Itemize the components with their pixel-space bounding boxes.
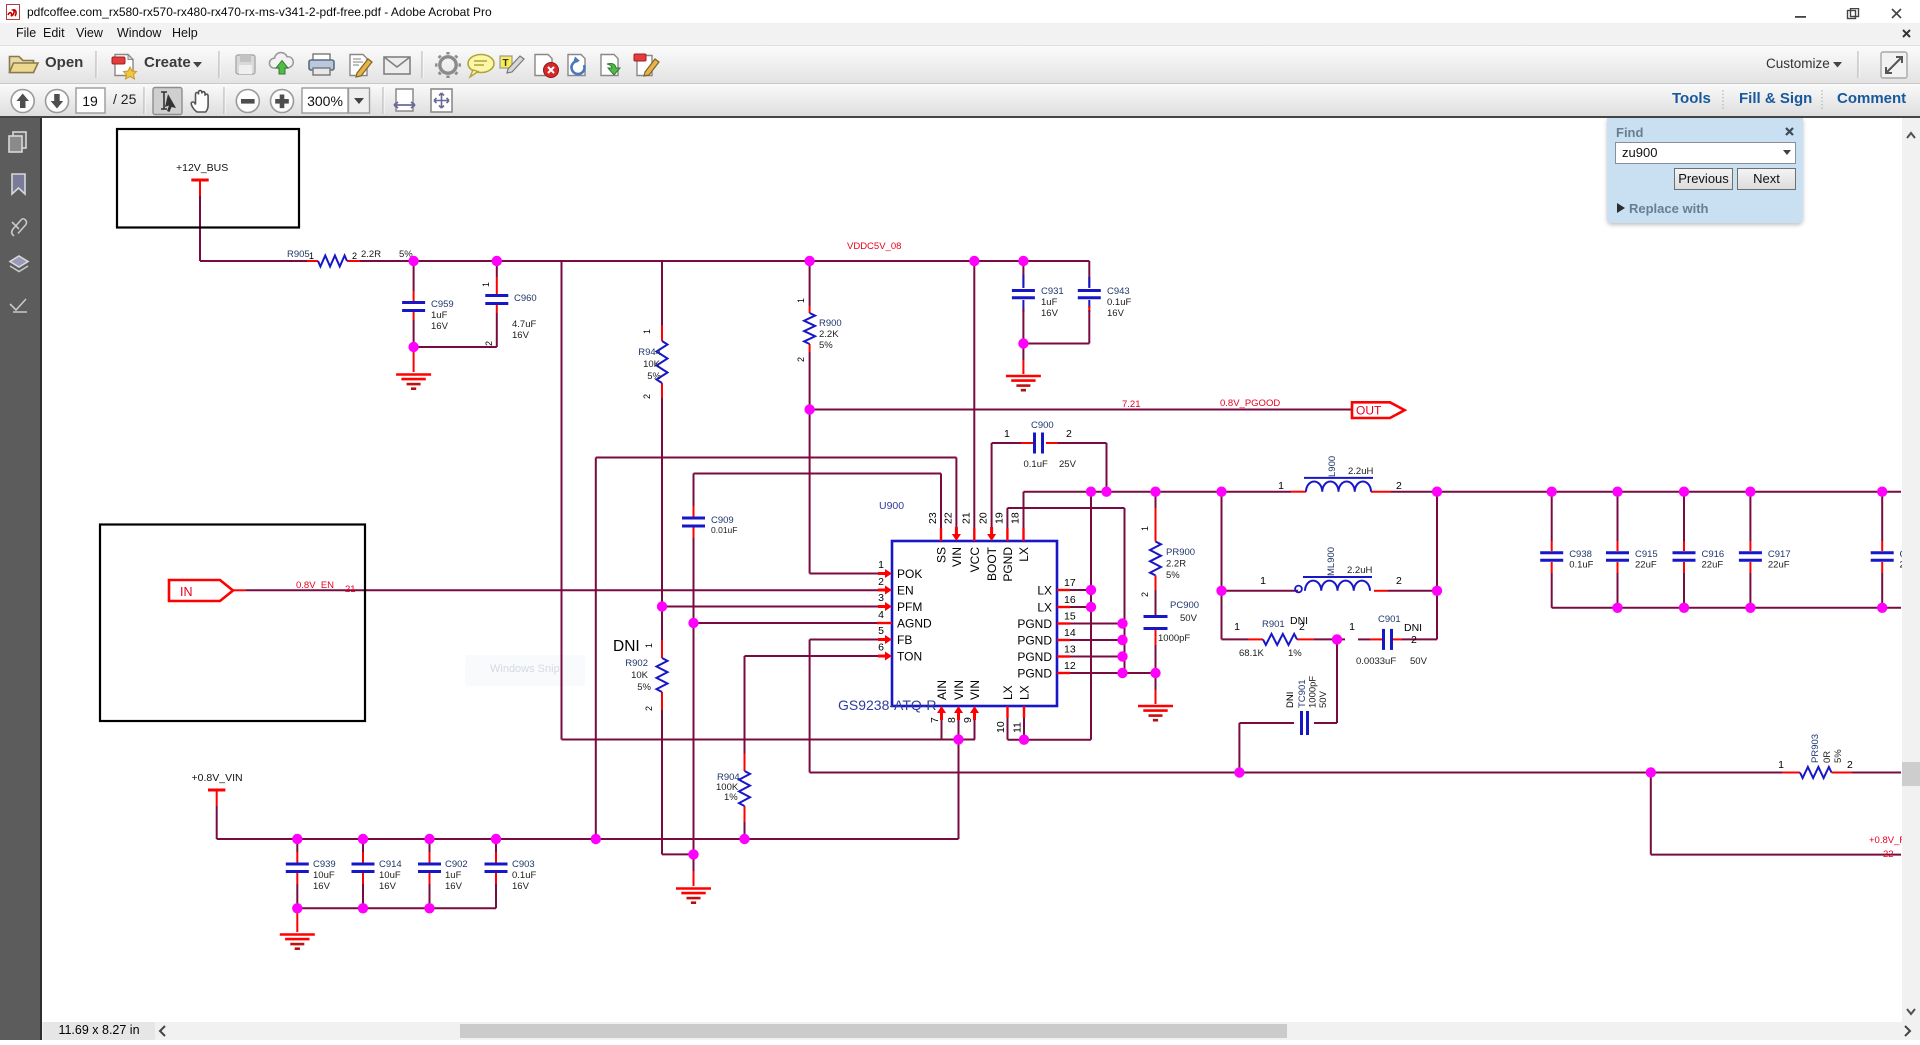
svg-text:R901: R901 [1262,619,1285,630]
wire SS line from C909 to pin23 [694,473,942,475]
vertical scrollbar [1902,118,1920,1022]
svg-text:2: 2 [642,394,652,399]
wire PGND pin14 lead [1070,639,1123,641]
svg-text:PGND: PGND [1017,634,1052,648]
U900 top pin 19 PGND [1006,528,1008,541]
svg-text:U900: U900 [879,500,904,512]
capacitor C914 [362,839,364,852]
junction ground column x694 [688,849,698,859]
capacitor C9xx at page edge [1881,492,1883,541]
junction top rail / C959 [408,256,418,266]
svg-text:DNI: DNI [1290,615,1308,627]
wire bottom right +0.8V feed y854.6 [1651,854,1901,856]
svg-text:2.2R: 2.2R [361,249,381,260]
junction PGND pin13 [1117,651,1127,661]
svg-text:4: 4 [878,609,884,621]
svg-text:1: 1 [796,298,806,303]
svg-text:C903: C903 [512,859,535,870]
wire POK link from R900 column [810,573,879,575]
svg-text:PGND: PGND [1017,617,1052,631]
svg-text:2: 2 [484,341,494,346]
svg-text:1: 1 [1004,428,1010,440]
svg-text:50V: 50V [1180,613,1198,624]
svg-text:1uF: 1uF [431,310,448,321]
svg-text:21: 21 [961,512,973,524]
capacitor C917 [1749,492,1751,541]
wire AGND line [694,622,878,624]
U900 top pin 21 VCC [973,528,975,541]
svg-text:0.1uF: 0.1uF [512,870,536,881]
svg-text:12: 12 [1064,660,1076,672]
svg-text:2.2K: 2.2K [819,329,839,340]
svg-text:16: 16 [1064,594,1076,606]
svg-text:10: 10 [995,721,1007,733]
U900 top pin 23 SS [940,528,942,541]
ground under C939 [296,908,298,932]
ground near C959 [413,347,415,372]
svg-text:0.1uF: 0.1uF [1569,560,1593,571]
wire LX pins 10-11 bottom link [1008,739,1092,741]
toolbar row 1 [0,46,1920,84]
svg-text:LX: LX [1001,685,1015,700]
wire vertical x595.8 VIN column [595,458,597,840]
resistor PR900 [1150,542,1161,576]
svg-text:VCC: VCC [968,547,982,573]
svg-text:TC901: TC901 [1297,679,1308,708]
wire TC901 line y723 [1239,722,1294,724]
svg-text:3: 3 [878,592,884,604]
svg-text:R944: R944 [638,347,661,358]
svg-text:L900: L900 [1327,456,1338,477]
capacitor C902 [429,839,431,852]
svg-text:1: 1 [1260,575,1266,587]
svg-text:C931: C931 [1041,286,1064,297]
U900 right pin 16 LX [1057,606,1070,608]
wire bottom caps ground link y908 [297,907,496,909]
wire y772.5 after PR903 to page edge [1852,772,1901,774]
capacitor C903 [495,839,497,852]
svg-text:16V: 16V [1107,308,1125,319]
wire R901 C901 line [1222,638,1249,640]
svg-text:LX: LX [1037,601,1052,615]
ground near C931 [1022,344,1024,361]
IC U900 body [892,541,1057,706]
junction caps bottom C915 [1612,603,1622,613]
svg-text:0.1uF: 0.1uF [1107,297,1131,308]
svg-text:1uF: 1uF [445,870,462,881]
wire long horizontal y772.5 FB net [810,772,1782,774]
svg-text:R900: R900 [819,318,842,329]
wire vertical R900 column top [809,261,811,306]
svg-text:10K: 10K [631,670,649,681]
port box IN [100,525,365,722]
junction rail / C902 [424,834,434,844]
svg-text:PGND: PGND [1017,667,1052,681]
junction y772.5 / output drop [1646,767,1656,777]
svg-text:7: 7 [929,717,941,723]
wire PGND pin13 lead [1070,656,1123,658]
svg-text:1: 1 [1278,480,1284,492]
junction rail / C903 [491,834,501,844]
svg-text:PR900: PR900 [1166,547,1195,558]
capacitor C960 [496,261,498,277]
wire horizontal y739.5 VIN bottom bus [562,739,976,741]
svg-text:0.0033uF: 0.0033uF [1356,656,1396,667]
junction LX pin17 [1086,585,1096,595]
svg-text:16V: 16V [1041,308,1059,319]
junction rail / C914 [358,834,368,844]
wire vertical R900 column PGOOD to POK [809,410,811,574]
svg-text:Windows Snip: Windows Snip [490,663,560,675]
svg-text:FB: FB [897,633,912,647]
wire R902 bottom to ground column [662,853,694,855]
svg-text:AIN: AIN [935,680,949,700]
U900 left pin 6 TON [878,652,892,661]
svg-text:15: 15 [1064,611,1076,623]
svg-text:10K: 10K [643,359,661,370]
svg-text:PC900: PC900 [1170,600,1199,611]
svg-text:C902: C902 [445,859,468,870]
U900 top pin 18 LX [1022,528,1024,541]
svg-text:1: 1 [642,329,652,334]
svg-text:ML900: ML900 [1326,547,1337,576]
svg-text:1000pF: 1000pF [1308,676,1319,708]
wire vertical x1239.4 TC901 branch [1238,723,1240,773]
svg-text:POK: POK [897,567,922,581]
junction gnd link C902 [424,903,434,913]
svg-text:0.01uF: 0.01uF [711,525,737,535]
wire EN red stub at IN port [233,589,246,591]
capacitor C938 [1551,492,1553,541]
resistor R904 [744,754,746,772]
svg-text:16V: 16V [431,321,449,332]
wire PGND pin19 top line y508 [1007,507,1124,509]
svg-text:OUT: OUT [1356,404,1382,418]
junction caps bottom C9xx [1877,603,1887,613]
svg-text:4.7uF: 4.7uF [512,319,536,330]
svg-text:50V: 50V [1410,656,1428,667]
svg-text:C915: C915 [1635,549,1658,560]
junction caps rail C915 [1612,487,1622,497]
junction PGND pin14 [1117,635,1127,645]
svg-text:6: 6 [878,642,884,654]
svg-text:1uF: 1uF [1041,297,1058,308]
svg-text:2: 2 [1411,634,1417,646]
svg-text:16V: 16V [512,881,530,892]
junction pin12 / PC900 ground [1150,668,1160,678]
U900 top pin 22 VIN [952,527,961,541]
svg-text:68.1K: 68.1K [1239,648,1264,659]
ground near PC900 [1138,705,1173,708]
title bar [0,0,1920,23]
U900 bottom pin 8 VIN [954,706,963,720]
wire vertical x744.5 TON-R904 column [744,656,746,754]
svg-text:22uF: 22uF [1768,560,1790,571]
junction top rail / C931 [1018,256,1028,266]
svg-text:11: 11 [1012,722,1024,733]
svg-text:2: 2 [796,357,806,362]
wire vertical x958.5 rail riser [958,740,960,840]
U900 right pin 15 PGND [1057,622,1070,624]
svg-text:5%: 5% [637,682,651,693]
wire main top rail y261 left of R905 [200,260,307,262]
junction gnd link C914 [358,903,368,913]
wire PGND pin12 line [1070,672,1156,674]
resistor R944 [661,325,663,341]
U900 right pin 14 PGND [1057,639,1070,641]
svg-text:22: 22 [1883,849,1894,860]
svg-text:19: 19 [82,93,98,109]
wire LX rail y491.7 left segment [1024,491,1292,493]
U900 top pin 20 BOOT [987,527,996,541]
svg-text:LX: LX [1017,547,1031,562]
svg-text:0.1uF: 0.1uF [1024,459,1048,470]
wire vertical VCC column x974.3 [973,261,975,528]
svg-text:BOOT: BOOT [985,546,999,581]
svg-text:1: 1 [1349,621,1355,633]
svg-text:22: 22 [943,512,955,524]
U900 left pin 3 PFM [878,602,892,611]
watermark snip remnant [465,655,585,686]
svg-text:PR903: PR903 [1810,734,1821,763]
U900 left pin 2 EN [878,586,892,595]
svg-text:2: 2 [352,251,357,261]
capacitor C939 [296,839,298,852]
svg-text:14: 14 [1064,627,1076,639]
svg-text:+12V_BUS: +12V_BUS [176,162,228,174]
junction PFM / R944 column [657,601,667,611]
svg-text:VIN: VIN [952,680,966,700]
svg-text:5%: 5% [647,371,661,382]
junction top rail / R900 [804,256,814,266]
junction caps rail C938 [1547,487,1557,497]
ground near x694 column [676,887,711,890]
svg-text:DNI: DNI [1285,692,1296,708]
svg-text:2: 2 [1066,428,1072,440]
svg-text:22uF: 22uF [1635,560,1657,571]
svg-text:23: 23 [927,512,939,524]
navigation sidebar [0,118,42,1040]
svg-text:22uF: 22uF [1702,560,1724,571]
svg-text:9: 9 [962,717,974,723]
menu bar [0,23,1920,46]
capacitor C959 [413,261,415,291]
wire VIN line from x596 to pin22 [596,457,957,459]
svg-text:1%: 1% [1288,648,1302,659]
svg-text:C916: C916 [1702,549,1725,560]
svg-text:C900: C900 [1031,420,1054,431]
wire vertical x662 R944-R902 column segments [661,261,663,325]
svg-text:VDDC5V_08: VDDC5V_08 [847,241,901,252]
U900 bottom pin 9 VIN [970,706,979,720]
svg-text:+0.8V_VIN: +0.8V_VIN [192,772,243,784]
svg-text:LX: LX [1037,584,1052,598]
svg-text:1: 1 [1234,621,1240,633]
capacitor PC900 [1144,615,1168,618]
svg-text:TON: TON [897,650,922,664]
svg-text:13: 13 [1064,644,1076,656]
svg-text:20: 20 [978,512,990,524]
svg-text:2.2uH: 2.2uH [1348,466,1373,477]
svg-text:21: 21 [345,584,356,595]
svg-text:300%: 300% [307,93,343,109]
junction ML900 left [1216,586,1226,596]
svg-text:C943: C943 [1107,286,1130,297]
svg-text:VIN: VIN [968,680,982,700]
svg-text:C938: C938 [1569,549,1592,560]
svg-text:2.2uH: 2.2uH [1347,565,1372,576]
wire vertical PR900 PC900 column [1155,492,1157,508]
svg-text:5%: 5% [1166,570,1180,581]
svg-text:2: 2 [878,576,884,588]
wire PGOOD line R900 to OUT [810,409,1352,411]
svg-text:2: 2 [644,706,654,711]
svg-text:LX: LX [1018,685,1032,700]
wire vertical FB column [809,640,811,773]
junction caps rail C9xx [1877,487,1887,497]
junction LX rail / C900 [1101,487,1111,497]
port flag IN [169,580,233,601]
svg-text:1: 1 [1778,759,1784,771]
junction LX bottom / pin11 [1019,735,1029,745]
svg-text:17: 17 [1064,577,1076,589]
svg-text:PGND: PGND [1017,650,1052,664]
capacitor C901 DNI [1382,629,1385,650]
junction rail / x595.8 [591,834,601,844]
junction PGND pin12 [1117,668,1127,678]
wire +12V_BUS vertical drop [199,196,201,261]
junction gnd link C939 [292,903,302,913]
junction LX rail / ML900 branch [1216,487,1226,497]
wire vertical x1221.5 ML900 branch [1221,492,1223,640]
junction caps bottom C916 [1679,603,1689,613]
svg-text:0R: 0R [1822,751,1833,763]
svg-text:2: 2 [1396,480,1402,492]
junction PGND pin15 [1117,618,1127,628]
capacitor C916 [1683,492,1685,541]
svg-text:PGND: PGND [1001,547,1015,582]
wire vertical x693.5 C909-AGND-ground column [693,474,695,507]
port flag OUT [1352,402,1405,418]
junction C959 bottom [408,342,418,352]
svg-text:PFM: PFM [897,600,922,614]
svg-text:SS: SS [935,547,949,563]
svg-text:DNI: DNI [613,638,640,655]
wire PFM line [662,606,879,608]
junction rail / C939 [292,834,302,844]
wire vertical x1437 output node [1436,492,1438,640]
svg-text:2: 2 [1396,575,1402,587]
U900 left pin 5 FB [878,635,892,644]
wire vertical x561.5 rail drop [561,261,563,740]
svg-text:1: 1 [309,251,314,261]
resistor PR903 [1782,772,1800,774]
junction caps rail C917 [1745,487,1755,497]
wire LX pin16 lead [1070,606,1091,608]
svg-text:AGND: AGND [897,617,932,631]
junction rail / R904 [739,834,749,844]
svg-text:5%: 5% [1833,749,1844,763]
U900 right pin 17 LX [1057,589,1070,591]
wire vertical x1650.8 output drop [1650,773,1652,855]
junction top rail / C960 [492,256,502,266]
junction VIN bus / pin8 [953,734,963,744]
U900 right pin 13 PGND [1057,655,1070,657]
wire TON line [745,655,880,657]
svg-text:16V: 16V [379,881,397,892]
wire ML900 line left [1222,590,1299,592]
wire LX rail y491.7 right segment through caps [1391,491,1901,493]
capacitor TC901 DNI [1300,711,1303,735]
svg-text:T: T [503,58,509,69]
wire vertical x1091 LX column [1090,492,1092,740]
wire vertical x1124.5 PGND column [1124,508,1126,673]
capacitor C915 [1617,492,1619,541]
U900 bottom pin 11 LX [1023,706,1025,718]
wire caps bottom rail y607.8 [1552,607,1901,609]
wire vertical x1337 C901-TC901 link [1336,639,1338,723]
junction ML900 right [1432,586,1442,596]
svg-text:10uF: 10uF [313,870,335,881]
svg-text:C917: C917 [1768,549,1791,560]
wire ML900 line right [1388,590,1437,592]
svg-text:GS9238-ATQ-R: GS9238-ATQ-R [838,697,937,713]
svg-text:2.2R: 2.2R [1166,559,1186,570]
junction R901-C901 / TC901 [1332,634,1342,644]
junction C931 bottom [1018,338,1028,348]
toolbar row 2 [0,84,1920,116]
U900 left pin 4 AGND [877,622,892,624]
inductor ML900 [1305,590,1388,592]
svg-text:5%: 5% [819,340,833,351]
svg-text:EN: EN [897,584,914,598]
inductor L900 [1291,491,1306,493]
resistor R902 DNI [661,640,663,658]
svg-text:8: 8 [946,717,958,723]
svg-text:1000pF: 1000pF [1158,633,1190,644]
junction LX rail / x1091 [1086,487,1096,497]
svg-text:25V: 25V [1059,459,1077,470]
U900 left pin 1 POK [878,569,892,578]
svg-text:C901: C901 [1378,614,1401,625]
svg-text:10uF: 10uF [379,870,401,881]
svg-text:IN: IN [180,585,193,599]
resistor R905 [307,260,318,262]
port box +12V_BUS [117,129,299,228]
svg-text:VIN: VIN [950,547,964,567]
find dialog [1607,118,1803,223]
svg-text:5: 5 [878,625,884,637]
svg-text:50V: 50V [1318,690,1329,708]
resistor R900 [809,306,811,313]
junction y772.5 / TC901 branch [1234,767,1244,777]
svg-text:R902: R902 [625,658,648,669]
svg-text:C959: C959 [431,299,454,310]
svg-text:2: 2 [1140,592,1150,597]
svg-text:C914: C914 [379,859,402,870]
junction LX rail / x1437 [1432,487,1442,497]
capacitor C909 [693,506,695,517]
bottom status / horizontal scrollbar [42,1022,1920,1040]
svg-text:R905: R905 [287,249,310,260]
svg-text:1%: 1% [724,792,738,803]
svg-text:1: 1 [481,282,491,287]
capacitor C931 [1022,261,1024,287]
wire FB line [810,639,879,641]
junction top rail / VCC column [969,256,979,266]
wire C959/C960 bottom link [414,346,497,348]
resistor R901 DNI [1248,638,1263,640]
